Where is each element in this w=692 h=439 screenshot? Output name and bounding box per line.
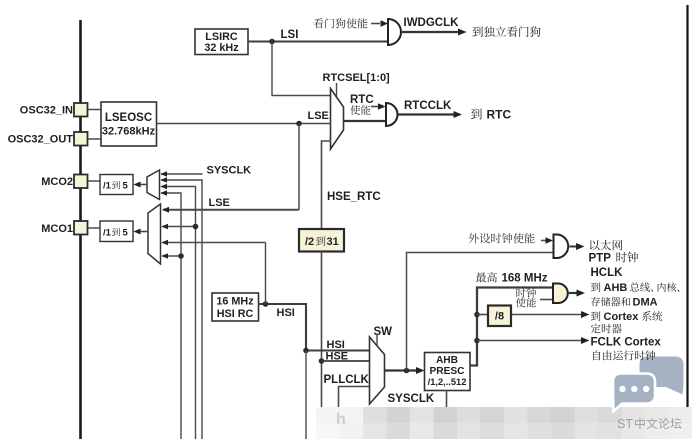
wire HSI main — [259, 304, 371, 351]
svg-text:LSE: LSE — [308, 110, 329, 122]
watermark logo dots — [619, 386, 625, 392]
svg-text:SYSCLK: SYSCLK — [388, 393, 435, 405]
wire HSE_RTC into mux — [322, 141, 332, 229]
svg-text:PTP: PTP — [589, 253, 612, 265]
wire LSE down to MCO1 mux — [298, 124, 300, 210]
wire /8 output to Cortex systick — [511, 314, 582, 316]
pin pad OSC32_IN — [74, 103, 88, 117]
wire mux input 4 (down x=181) — [161, 193, 181, 439]
label peripheral clock enable (CJK) — [468, 233, 478, 243]
wire RTC enable arrow — [371, 106, 378, 108]
mux MCO1 source select — [148, 204, 161, 264]
label to independent watchdog (CJK) — [472, 27, 482, 37]
junction SYSCLK — [404, 368, 410, 374]
wire peripheral clock enable arrow — [541, 240, 546, 242]
wire HCLK gate output — [569, 292, 577, 294]
svg-text:/8: /8 — [495, 311, 504, 323]
mux RTCSEL select tick — [336, 83, 338, 97]
svg-text:PLLCLK: PLLCLK — [324, 374, 370, 386]
svg-text:HSI: HSI — [327, 339, 345, 351]
junction MCO1 input 4 — [178, 253, 184, 259]
divider /1 to 5 (MCO2) — [100, 175, 133, 195]
label watchdog enable (CJK) — [313, 18, 323, 28]
and-gate RTC clock gate — [386, 103, 398, 126]
svg-text:OSC32_OUT: OSC32_OUT — [8, 134, 74, 146]
svg-text:FCLK Cortex: FCLK Cortex — [591, 337, 662, 349]
watermark logo front chat bubble — [613, 374, 655, 412]
svg-text:HSE: HSE — [326, 351, 349, 363]
wire MCO2 pad to divider — [88, 180, 101, 182]
divider /1 to 5 (MCO1) — [100, 221, 133, 242]
pin pad MCO1 — [74, 221, 88, 235]
wire OSC32_OUT to LSEOSC — [88, 138, 102, 140]
svg-text:ST: ST — [617, 417, 633, 431]
label timer (CJK) — [591, 324, 601, 334]
svg-text:168 MHz: 168 MHz — [502, 273, 548, 285]
svg-text:HSE_RTC: HSE_RTC — [327, 191, 381, 203]
svg-text:AHB: AHB — [436, 355, 458, 366]
svg-text:5: 5 — [123, 228, 129, 239]
label enable (CJK) — [350, 105, 360, 115]
label free running clock (CJK) — [593, 350, 600, 360]
svg-text:LSI: LSI — [281, 29, 299, 41]
divider AHB PRESC box — [425, 353, 471, 391]
wire PLLCLK — [339, 387, 371, 439]
svg-text:RTC: RTC — [487, 108, 512, 122]
wire HSE vertical below divider — [321, 252, 323, 439]
wire IWDGCLK output — [401, 31, 458, 33]
svg-text:RTCSEL[1:0]: RTCSEL[1:0] — [323, 72, 391, 84]
svg-text:AHB: AHB — [604, 282, 628, 294]
svg-text:32 kHz: 32 kHz — [204, 42, 239, 54]
wire mux input SYSCLK stub — [161, 173, 203, 175]
label memory and DMA — [591, 297, 600, 306]
label ethernet (CJK) — [590, 240, 600, 250]
wire LSI down to RTC mux — [272, 42, 331, 96]
divider /8 box — [488, 306, 511, 327]
wire RTCCLK output — [398, 113, 454, 115]
mux SW select tick — [376, 334, 378, 348]
and-gate HCLK clock gate — [553, 284, 568, 304]
svg-text:/1: /1 — [103, 181, 112, 192]
divider /2 to 31 box — [299, 229, 344, 252]
label to AHB bus, core (CJK) — [591, 282, 601, 291]
junction FCLK tap — [474, 338, 480, 344]
wire mux input 2 (down x=202) — [161, 180, 202, 439]
wire LSE main — [157, 123, 332, 125]
svg-text:/2: /2 — [305, 236, 314, 248]
svg-text:DMA: DMA — [633, 297, 658, 309]
svg-text:PRESC: PRESC — [429, 366, 465, 377]
svg-text:SYSCLK: SYSCLK — [207, 165, 252, 177]
wire LSI main — [248, 41, 388, 43]
wire HSE to SW mux — [322, 360, 371, 362]
svg-text:HSI: HSI — [277, 307, 295, 319]
svg-text:HCLK: HCLK — [591, 267, 624, 279]
svg-text:MCO1: MCO1 — [41, 223, 73, 235]
wire RTC mux output — [344, 120, 387, 122]
label to RTC — [471, 109, 482, 120]
svg-text:/1,2,..512: /1,2,..512 — [428, 377, 467, 387]
label to Cortex system (CJK) — [591, 311, 601, 320]
wire HSI up to MCO1 mux — [265, 243, 267, 305]
wire HCLK from AHB PRESC up — [470, 288, 554, 366]
pin pad MCO2 — [74, 175, 88, 189]
wire clock enable stub — [540, 299, 553, 301]
wire SW mux output SYSCLK — [385, 369, 421, 371]
wire OSC32_IN to LSEOSC — [88, 109, 102, 111]
wire to /8 divider — [477, 314, 488, 316]
wire mux input 3 (down x=195.5) — [161, 187, 196, 439]
svg-text:h: h — [336, 411, 346, 428]
svg-text:32.768kHz: 32.768kHz — [102, 126, 156, 138]
svg-text:MCO2: MCO2 — [41, 176, 73, 188]
pin pad OSC32_OUT — [74, 132, 88, 146]
wire MCO1 mux output — [139, 231, 148, 233]
svg-text:OSC32_IN: OSC32_IN — [20, 105, 73, 117]
wire FCLK — [477, 340, 582, 342]
svg-text:LSEOSC: LSEOSC — [105, 112, 152, 124]
mux MCO2 source select — [147, 170, 160, 200]
svg-text:31: 31 — [327, 236, 339, 248]
censored mosaic strip — [316, 407, 340, 423]
wire AHB PRESC bottom stub — [446, 391, 448, 413]
svg-text:LSE: LSE — [209, 197, 230, 209]
wire MCO2 mux output — [139, 184, 147, 186]
svg-text:HSI RC: HSI RC — [217, 308, 254, 320]
svg-text:5: 5 — [123, 181, 129, 192]
chip boundary line — [79, 20, 82, 439]
junction HSE — [319, 358, 325, 364]
page right border line — [686, 5, 688, 408]
wire watchdog enable arrow — [371, 23, 380, 25]
junction LSE — [296, 121, 302, 127]
junction MCO1 input 2 — [193, 224, 199, 230]
wire MCO1 mux input 2 — [162, 226, 196, 228]
svg-text:IWDGCLK: IWDGCLK — [404, 17, 460, 29]
oscillator LSEOSC 32.768kHz box — [101, 102, 157, 146]
junction HSI at box output — [263, 301, 269, 307]
junction /8 tap — [474, 312, 480, 318]
oscillator 16 MHz HSI RC box — [212, 293, 259, 321]
svg-text:16 MHz: 16 MHz — [216, 296, 254, 308]
wire PTP gate output — [570, 246, 578, 248]
svg-text:/1: /1 — [103, 228, 112, 239]
svg-text:Cortex: Cortex — [604, 311, 640, 323]
and-gate IWDG (watchdog clock gate) — [388, 19, 401, 45]
and-gate ethernet PTP clock gate — [554, 235, 569, 259]
svg-text:RTC: RTC — [350, 94, 374, 106]
junction LSI — [269, 39, 275, 45]
label max 168 MHz — [476, 272, 486, 282]
svg-text:RTCCLK: RTCCLK — [404, 100, 452, 112]
oscillator LSIRC 32 kHz box — [195, 29, 248, 55]
label clock enable (CJK) — [516, 288, 525, 298]
wire HSI down continuation — [305, 351, 307, 439]
wire SYSCLK up to PTP gate — [407, 253, 554, 371]
watermark logo back chat bubble — [640, 357, 684, 395]
wire MCO1 pad to divider — [88, 227, 101, 229]
mux RTCSEL — [331, 89, 344, 150]
wire MCO1 mux input 4 — [162, 255, 181, 257]
mux SW (system clock switch) — [370, 337, 385, 404]
wire MCO1 mux input 3 (HSI) — [162, 242, 266, 244]
junction HSI at SW corner — [303, 348, 309, 354]
